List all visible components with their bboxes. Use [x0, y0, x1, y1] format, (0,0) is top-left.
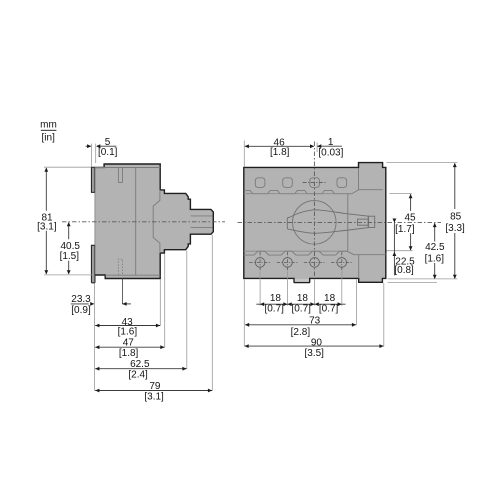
- handle circle: [293, 201, 337, 245]
- svg-text:[1.7]: [1.7]: [395, 224, 415, 235]
- dim 85 [3.3]: [454, 163, 456, 278]
- svg-text:23.3: 23.3: [71, 294, 91, 305]
- bottom block inner line: [358, 255, 360, 279]
- dim 1 [0.03]: [317, 145, 342, 147]
- front view body outline: [244, 163, 386, 283]
- dim 73 [2.8]: [245, 324, 356, 326]
- ext 46 left: [243, 141, 245, 167]
- ext top for 81: [44, 166, 91, 168]
- side view body outline: [92, 164, 214, 283]
- bottom lip line: [105, 274, 160, 276]
- svg-text:45: 45: [404, 213, 416, 224]
- svg-text:[1.8]: [1.8]: [270, 147, 290, 158]
- dim 5 [0.1]: [86, 145, 117, 147]
- dim 22.5 [0.8]: [393, 223, 395, 276]
- ext 1: [316, 143, 318, 153]
- svg-text:[0.7]: [0.7]: [264, 303, 284, 314]
- svg-text:[3.5]: [3.5]: [304, 348, 324, 359]
- ext lines 5 dim: [91, 144, 93, 167]
- bottom terminal screws with crosshairs: [255, 258, 346, 268]
- svg-text:[0.7]: [0.7]: [319, 303, 339, 314]
- top terminal screws: [255, 178, 265, 188]
- svg-text:[1.6]: [1.6]: [425, 253, 445, 264]
- dim 47 [1.8]: [95, 346, 164, 348]
- dims 18 18 18 [0.7]: [256, 303, 345, 305]
- body waist profile behind bezel: [153, 190, 160, 253]
- svg-text:[1.6]: [1.6]: [118, 326, 138, 337]
- svg-text:18: 18: [270, 293, 282, 304]
- dim 46 [1.8]: [245, 145, 314, 147]
- ext bottom for 81/40.5: [44, 274, 94, 276]
- dim 23.3 [0.9]: [71, 278, 131, 304]
- svg-text:[1.5]: [1.5]: [60, 251, 80, 262]
- svg-text:18: 18: [297, 293, 309, 304]
- svg-text:[3.3]: [3.3]: [445, 223, 465, 234]
- mounting flange top strip: [92, 167, 95, 192]
- svg-text:85: 85: [450, 212, 462, 223]
- vertical separation line: [347, 194, 349, 251]
- svg-text:[0.03]: [0.03]: [318, 148, 343, 159]
- svg-text:[3.1]: [3.1]: [144, 391, 164, 402]
- svg-text:[1.8]: [1.8]: [119, 348, 139, 359]
- crosshair on third top screw: [303, 182, 327, 184]
- bottom band baseline: [244, 250, 347, 252]
- svg-text:79: 79: [149, 381, 161, 392]
- dim 79 [3.1]: [95, 390, 212, 392]
- side view centerline: [62, 221, 225, 223]
- handle inner rectangle: [358, 219, 369, 225]
- side view body fill: [92, 164, 214, 283]
- ext verticals below front view: [243, 280, 245, 347]
- inner vertical line: [135, 168, 137, 276]
- din tab fill: [295, 279, 309, 282]
- svg-text:[2.4]: [2.4]: [128, 369, 148, 380]
- dim 81 [3.1]: [45, 168, 47, 274]
- top band baseline: [244, 193, 352, 195]
- svg-text:mm: mm: [40, 120, 57, 131]
- svg-text:[0.8]: [0.8]: [394, 265, 414, 276]
- dim 45 [1.7]: [410, 194, 412, 250]
- ext verticals below side view: [94, 283, 96, 391]
- front view vertical centerline: [313, 142, 315, 279]
- dim 43 [1.6]: [95, 325, 160, 327]
- shaft chamfer lines: [191, 215, 213, 217]
- handle end cap: [368, 216, 374, 227]
- svg-text:73: 73: [309, 315, 321, 326]
- svg-text:1: 1: [328, 137, 334, 148]
- svg-text:47: 47: [123, 338, 135, 349]
- bottom slot (dotted): [118, 259, 122, 275]
- svg-text:[0.7]: [0.7]: [291, 303, 311, 314]
- svg-text:[in]: [in]: [42, 133, 56, 144]
- mounting flange bottom strip: [92, 246, 95, 283]
- dim 62.5 [2.4]: [95, 368, 186, 370]
- svg-text:90: 90: [311, 337, 323, 348]
- top scallop line: [244, 190, 359, 194]
- svg-text:[2.8]: [2.8]: [291, 327, 311, 338]
- inner top line: [95, 167, 160, 169]
- units label mm/in: [40, 120, 57, 144]
- dim 40.5 [1.5]: [68, 222, 70, 273]
- dim 90 [3.5]: [245, 345, 384, 347]
- front view horizontal centerline: [238, 221, 442, 223]
- bottom scallop line: [244, 251, 386, 255]
- handle lever: [287, 210, 368, 234]
- svg-text:18: 18: [324, 293, 336, 304]
- ext right side: [386, 162, 457, 164]
- side view waist edge thin: [94, 192, 96, 245]
- svg-text:[0.1]: [0.1]: [98, 147, 118, 158]
- svg-text:42.5: 42.5: [425, 242, 445, 253]
- svg-text:[3.1]: [3.1]: [37, 221, 57, 232]
- top slot: [118, 168, 122, 183]
- top block inner lines: [359, 168, 383, 190]
- svg-text:[0.9]: [0.9]: [71, 305, 91, 316]
- dim 42.5 [1.6]: [434, 223, 436, 278]
